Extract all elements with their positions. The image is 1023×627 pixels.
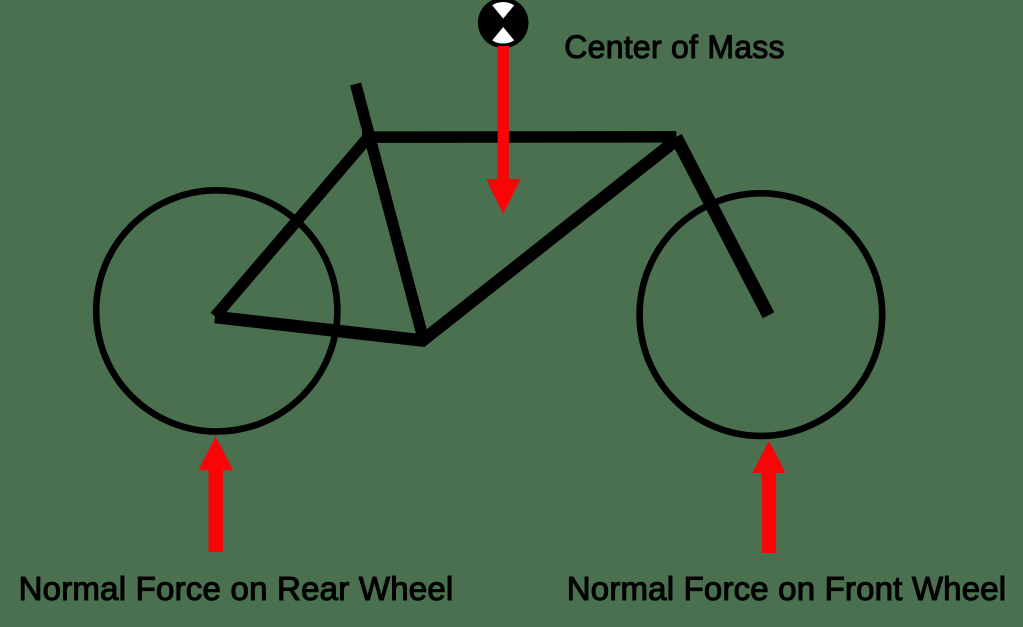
seat stay (215, 140, 366, 317)
normal force arrow rear (up) (198, 436, 233, 552)
front wheel (640, 193, 883, 436)
normal force arrow front (up) (752, 441, 785, 553)
svg-text:Normal Force on Rear Wheel: Normal Force on Rear Wheel (19, 570, 454, 607)
top tube (362, 131, 676, 143)
weight arrow (down) (486, 46, 521, 214)
rear wheel (96, 190, 337, 431)
svg-text:Center of Mass: Center of Mass (564, 29, 784, 65)
fork (676, 137, 769, 315)
chain stay + down tube (215, 140, 677, 341)
seat post and seat tube (356, 84, 424, 340)
center of mass symbol (478, 0, 529, 48)
svg-text:Normal Force on Front Wheel: Normal Force on Front Wheel (567, 570, 1007, 607)
